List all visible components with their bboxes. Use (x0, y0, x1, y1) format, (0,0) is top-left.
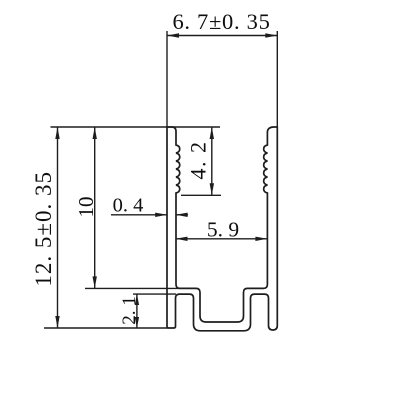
svg-text:12. 5±0. 35: 12. 5±0. 35 (31, 171, 56, 287)
extrusion profile cross-section outline (channel with knurled inner walls, bottom groove and legs) (167, 127, 277, 331)
arrowhead 10 bottom (93, 276, 97, 288)
dimension line 2.1 (floor to bottom) (136, 294, 138, 328)
arrowhead 4.2 top (210, 127, 214, 139)
dimension leader 0.4 left segment (111, 214, 167, 216)
extension line bottom of profile (for 12.5 / 2.1 dims) (44, 327, 168, 329)
arrowhead 6.7 left (167, 33, 179, 37)
dimension line 5.9 (inner width) (176, 238, 268, 240)
arrowhead 5.9 left (176, 237, 188, 241)
arrowhead 10 top (93, 127, 97, 139)
svg-text:10: 10 (74, 197, 98, 218)
extension line right (outer width, above right wall) (276, 31, 278, 127)
svg-text:4. 2: 4. 2 (186, 141, 211, 180)
dimension line 6.7 (top outer width) (167, 35, 277, 37)
extension line left (outer width, above left wall) (166, 31, 168, 127)
arrowhead 6.7 right (265, 33, 277, 37)
dimension line 10 (height to floor) (94, 127, 96, 288)
arrowhead 4.2 bottom (210, 183, 214, 195)
dimension leader 0.4 right segment (176, 214, 188, 216)
svg-text:5. 9: 5. 9 (207, 218, 239, 242)
dimension line 12.5 (overall height) (57, 127, 59, 328)
arrowhead 0.4 left (points right at outer wall face) (155, 213, 167, 217)
svg-text:6. 7±0. 35: 6. 7±0. 35 (172, 9, 270, 34)
dimension line 4.2 (knurl length) (211, 127, 213, 195)
svg-text:0. 4: 0. 4 (113, 195, 144, 217)
arrowhead 12.5 bottom (55, 316, 59, 328)
arrowhead 2.1 top (135, 294, 139, 305)
svg-text:2. 1: 2. 1 (119, 296, 140, 325)
arrowhead 12.5 top (55, 127, 59, 139)
extension line knurl bottom (for 4.2 dim) (181, 194, 221, 196)
extension line channel floor top (for 10 dim) (85, 287, 180, 289)
extension line top of profile (shared by 12.5 / 10 / 4.2 dims) (51, 126, 221, 128)
arrowhead 2.1 bottom (135, 317, 139, 328)
extension line floor underside (for 2.1 dim) (133, 293, 176, 295)
arrowhead 5.9 right (255, 237, 267, 241)
arrowhead 0.4 right (points left at inner wall face) (176, 213, 188, 217)
